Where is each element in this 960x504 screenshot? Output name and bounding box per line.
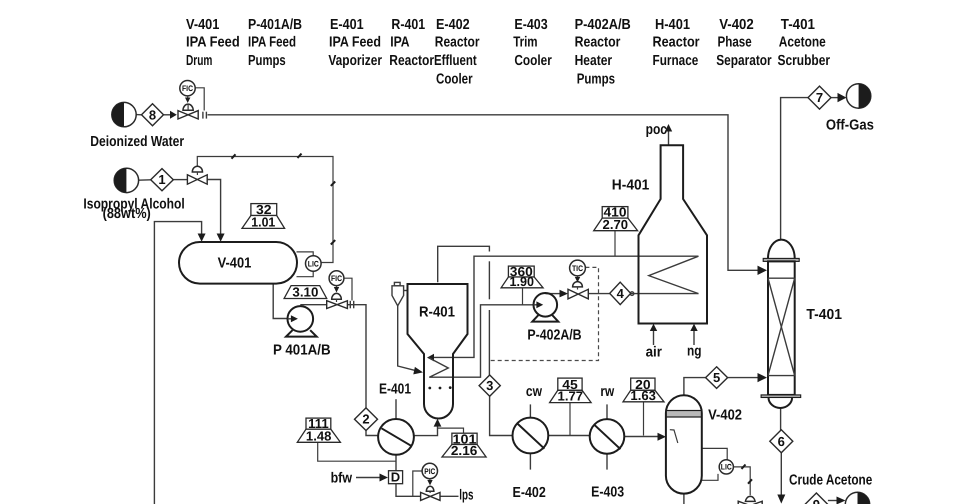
svg-text:3: 3 — [486, 378, 493, 393]
svg-text:1.48: 1.48 — [306, 428, 332, 443]
wire deionized water stream 8 to T-401 — [136, 111, 767, 275]
wire 360 flag stem — [522, 288, 524, 305]
wire TIC sensing dashed signal — [490, 267, 599, 360]
valve deionized water FIC — [178, 104, 198, 119]
wire E-403 to V-402 feed — [624, 433, 666, 441]
svg-text:Reactor: Reactor — [575, 35, 621, 51]
svg-text:1.77: 1.77 — [558, 389, 584, 404]
wire recycle line from sheet bottom into V-401 — [154, 222, 205, 504]
svg-text:Separator: Separator — [716, 53, 772, 69]
wire LIC V-401 signal to IPA valve actuator — [197, 154, 335, 263]
svg-text:7: 7 — [816, 90, 823, 105]
wire E-401 bottom to D box and lps valve — [395, 454, 397, 471]
svg-text:8: 8 — [149, 107, 156, 122]
stream diamond 4 — [610, 282, 631, 304]
svg-text:Cooler: Cooler — [436, 72, 473, 88]
orifice flanges on P-401 discharge — [350, 301, 353, 309]
svg-text:6: 6 — [778, 434, 785, 449]
furnace H-401 — [639, 145, 708, 323]
wire 111 flag connector — [318, 442, 396, 461]
svg-text:4: 4 — [617, 286, 625, 301]
wire P-402 discharge through TIC valve to H-401 coil — [545, 290, 698, 298]
svg-text:Acetone: Acetone — [779, 35, 826, 51]
instrument FIC P-401 — [329, 271, 344, 293]
wire V-402 vapor stream 5 to T-401 — [684, 373, 767, 395]
svg-text:2.16: 2.16 — [451, 443, 478, 458]
wire FIC P-401 signal to orifice — [344, 278, 352, 300]
svg-text:TIC: TIC — [572, 264, 583, 273]
svg-text:E-403: E-403 — [514, 17, 547, 33]
svg-text:V-402: V-402 — [708, 407, 742, 423]
valve IPA feed — [187, 166, 207, 184]
pump P-402A/B — [532, 293, 558, 322]
svg-text:R-401: R-401 — [419, 305, 455, 321]
svg-text:Cooler: Cooler — [514, 53, 552, 69]
wire crude acetone offpage arrow — [828, 497, 846, 504]
wire V-402 LIC taps — [702, 448, 727, 460]
svg-text:1: 1 — [158, 172, 165, 187]
svg-text:LIC: LIC — [308, 259, 319, 268]
io circle deionized water — [112, 102, 136, 126]
svg-text:bfw: bfw — [331, 471, 353, 487]
wire bfw arrow into D box — [356, 474, 388, 482]
stream diamond 1 — [151, 169, 174, 191]
wire E-401 vapor stub — [395, 399, 397, 419]
wire cyclone dipleg in R-401 — [398, 306, 423, 375]
svg-text:PIC: PIC — [424, 467, 435, 476]
stream diamond 9 offpage — [805, 493, 828, 504]
wire R-401 coil return to P-402 suction — [429, 305, 533, 377]
orifice flanges on deionized water line — [203, 112, 207, 119]
instrument TIC molten salt — [570, 260, 586, 282]
instrument PIC lps — [422, 463, 437, 485]
wire 101 flag connector — [438, 428, 464, 433]
svg-text:H-401: H-401 — [612, 178, 650, 194]
svg-text:IPA Feed: IPA Feed — [329, 35, 381, 51]
svg-text:V-401: V-401 — [218, 255, 252, 271]
wire poc out of H-401 stack — [665, 124, 672, 145]
reactor R-401 — [408, 284, 468, 419]
utility box D bfw — [389, 470, 403, 485]
svg-text:air: air — [646, 345, 663, 361]
flag 45 / 1.77 on cw — [550, 377, 592, 404]
svg-text:Reactor: Reactor — [389, 53, 434, 69]
valve molten salt TIC — [568, 282, 588, 299]
svg-text:cw: cw — [526, 384, 543, 400]
flag 20 / 1.63 on rw — [623, 377, 664, 403]
wire E-403 bottom stub — [606, 454, 608, 470]
wire V-402 LIC signal to bottoms valve — [733, 465, 752, 496]
instrument LIC V-401 — [306, 256, 322, 272]
svg-text:2.70: 2.70 — [603, 217, 629, 232]
wire V-401 LIC taps — [297, 252, 314, 256]
wire E-402 bottom stub — [529, 453, 531, 469]
wire R-401 effluent stream 3 to E-402 — [438, 246, 513, 435]
stream diamond 5 — [706, 367, 728, 389]
stream diamond 3 — [479, 375, 500, 396]
svg-text:T-401: T-401 — [781, 17, 815, 33]
valve lps PIC — [421, 486, 440, 500]
svg-text:rw: rw — [600, 384, 614, 400]
wire T-401 overhead stream 7 to off-gas — [781, 93, 847, 239]
svg-text:2: 2 — [362, 412, 369, 427]
pump P-401A/B — [286, 306, 317, 337]
wire diamond 2 to E-401 inlet — [366, 430, 378, 435]
wire deionized water orifice signal to FIC — [195, 88, 204, 111]
wire V-402 bottoms stub — [683, 493, 685, 504]
stream diamond 8 — [142, 104, 164, 126]
svg-text:H-401: H-401 — [655, 17, 690, 33]
stream diamond 7 — [808, 86, 831, 109]
wire E-401 outlet up into R-401 bottom — [414, 419, 442, 436]
svg-text:lps: lps — [459, 487, 473, 503]
svg-text:R-401: R-401 — [391, 17, 425, 33]
svg-text:Reactor: Reactor — [653, 35, 700, 51]
svg-text:E-402: E-402 — [436, 17, 470, 33]
svg-text:1.90: 1.90 — [510, 274, 535, 289]
io circle off-gas — [846, 84, 870, 108]
exchanger E-402 reactor effluent cooler — [513, 418, 549, 454]
stream diamond 6 — [770, 430, 793, 453]
inlet baffle V-402 — [670, 430, 678, 443]
demister pad V-402 — [666, 411, 701, 418]
svg-text:9: 9 — [813, 497, 820, 504]
svg-text:Effluent: Effluent — [434, 53, 477, 69]
wire P-401 discharge through valve to E-401 — [300, 304, 326, 306]
svg-text:1.63: 1.63 — [630, 388, 656, 403]
valve P-401 discharge FIC — [327, 293, 348, 308]
wire diamond 1 to IPA feed valve — [173, 179, 187, 181]
io circle isopropyl alcohol — [114, 168, 138, 192]
flag 32 / 1.01 on V-401 — [242, 202, 285, 230]
wire E-402 to E-403 — [548, 435, 590, 437]
wire H-401 internal coil zigzag — [649, 256, 699, 293]
wire rw stub on E-403 — [606, 404, 608, 419]
equipment title block headers — [186, 17, 830, 88]
wire 20 flag stem — [643, 399, 645, 436]
svg-text:Reactor: Reactor — [435, 35, 480, 51]
coil zigzag inside R-401 — [429, 358, 449, 378]
instrument FIC deionized water — [180, 81, 195, 104]
svg-text:Scrubber: Scrubber — [778, 53, 831, 69]
exchanger E-401 IPA vaporizer — [378, 419, 414, 455]
svg-text:Phase: Phase — [718, 35, 752, 51]
wire IPA circle to diamond 1 — [138, 179, 150, 181]
flag 360 / 1.90 on molten salt — [501, 264, 543, 289]
wire air into H-401 — [650, 324, 657, 345]
wire ng into H-401 — [690, 324, 697, 345]
svg-text:IPA: IPA — [390, 35, 410, 51]
flag 3.10 on P-401 discharge — [284, 285, 327, 300]
cyclone on R-401 — [392, 282, 404, 305]
svg-text:IPA Feed: IPA Feed — [248, 35, 296, 51]
svg-text:P-401A/B: P-401A/B — [248, 17, 302, 33]
node salt line connection at H-401 wall — [630, 292, 634, 296]
svg-text:Drum: Drum — [186, 53, 212, 69]
flag 101 / 2.16 on R-401 feed — [442, 431, 486, 458]
flag 111 / 1.48 on bfw — [297, 416, 340, 443]
svg-text:Furnace: Furnace — [653, 53, 699, 69]
svg-text:FIC: FIC — [331, 274, 342, 283]
valve V-402 bottoms LIC — [738, 496, 762, 504]
column T-401 acetone scrubber — [761, 240, 801, 408]
svg-text:ng: ng — [687, 343, 702, 359]
instrument LIC V-402 — [719, 460, 733, 474]
wire T-401 bottoms stream 6 crude acetone — [777, 408, 785, 504]
exchanger E-403 trim cooler — [590, 419, 625, 454]
svg-text:V-401: V-401 — [186, 17, 219, 33]
wire molten salt supply H-401 coil to R-401 coil — [427, 256, 699, 361]
io circle crude acetone offpage — [845, 492, 869, 504]
separator V-402 — [666, 395, 702, 493]
svg-text:Off-Gas: Off-Gas — [826, 118, 874, 134]
svg-text:Pumps: Pumps — [577, 72, 615, 88]
wire IPA valve to V-401 top nozzle — [207, 180, 224, 242]
wire V-401 bottoms to P-401 suction — [273, 283, 287, 318]
svg-text:P-402A/B: P-402A/B — [527, 328, 581, 344]
svg-text:E-401: E-401 — [379, 381, 411, 397]
svg-text:IPA Feed: IPA Feed — [186, 35, 240, 51]
svg-text:5: 5 — [713, 370, 720, 385]
vessel V-401 IPA feed drum — [179, 242, 297, 284]
svg-text:P 401A/B: P 401A/B — [273, 343, 331, 359]
wire PIC pressure tap — [413, 471, 422, 496]
flag 410 / 2.70 on molten salt supply — [594, 205, 638, 232]
svg-text:3.10: 3.10 — [292, 285, 318, 300]
svg-text:Deionized Water: Deionized Water — [90, 134, 184, 150]
wire 45 flag stem — [569, 399, 571, 436]
stream diamond 2 — [355, 408, 378, 431]
wire cw stub on E-402 — [529, 404, 531, 417]
svg-text:Heater: Heater — [575, 53, 613, 69]
svg-text:V-402: V-402 — [719, 17, 754, 33]
svg-text:FIC: FIC — [182, 84, 193, 93]
svg-text:(88wt%): (88wt%) — [103, 206, 151, 222]
svg-text:Pumps: Pumps — [248, 53, 286, 69]
svg-text:E-402: E-402 — [513, 485, 546, 501]
svg-text:LIC: LIC — [721, 463, 732, 472]
wire cyclone connector to R-401 wall — [404, 290, 408, 292]
svg-text:E-401: E-401 — [330, 17, 364, 33]
svg-text:poc: poc — [646, 122, 667, 138]
wire 410 flag stem — [614, 231, 616, 257]
svg-text:Vaporizer: Vaporizer — [328, 53, 382, 69]
svg-text:Crude Acetone: Crude Acetone — [789, 473, 872, 489]
svg-text:T-401: T-401 — [806, 307, 842, 323]
svg-text:E-403: E-403 — [591, 485, 624, 501]
svg-text:P-402A/B: P-402A/B — [575, 17, 631, 33]
svg-text:D: D — [391, 470, 400, 485]
svg-text:Trim: Trim — [513, 35, 537, 51]
svg-text:1.01: 1.01 — [251, 215, 275, 230]
